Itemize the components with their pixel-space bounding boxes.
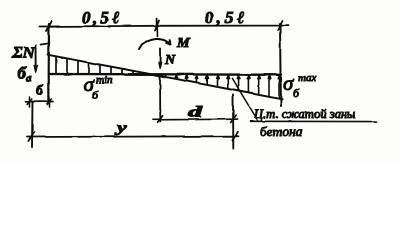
tick right end of d dimension <box>231 116 236 123</box>
svg-text:0,5ℓ: 0,5ℓ <box>82 8 123 27</box>
svg-text:ба: ба <box>18 65 32 84</box>
dimension line y (y=136.5) <box>27 135 238 138</box>
load arrow under sum N (head down) <box>34 45 37 73</box>
svg-text:max: max <box>298 72 316 84</box>
tick right end of b dimension <box>47 97 52 107</box>
svg-text:б: б <box>92 88 99 102</box>
tick on left extension line <box>41 43 50 44</box>
force arrow N (vertical, head down) <box>159 48 162 68</box>
svg-text:0,5ℓ: 0,5ℓ <box>205 8 248 27</box>
leader underline <box>250 120 376 122</box>
tick left end of top dimension <box>47 22 52 32</box>
tick right end of top dimension <box>278 21 283 31</box>
tick right end of y dimension <box>232 132 238 141</box>
centroid extension line <box>232 95 234 149</box>
svg-text:N: N <box>164 53 176 68</box>
left lower extension line (edge for y dimension) <box>31 102 34 148</box>
svg-text:у: у <box>115 119 128 136</box>
svg-text:M: M <box>176 36 190 51</box>
tick left end of d dimension <box>158 116 163 123</box>
left extension line (edge of section) <box>48 24 50 102</box>
stress arrows right triangle (heads up at datum) <box>166 75 280 99</box>
svg-text:ΣN: ΣN <box>11 43 36 62</box>
middle extension line upper stub <box>156 26 158 36</box>
leader line to centroid <box>232 79 257 121</box>
middle extension line lower (to d dimension) <box>159 76 161 122</box>
moment arc arrowhead <box>167 40 171 45</box>
svg-text:бетона: бетона <box>260 124 303 139</box>
label sigma_b^min <box>84 72 114 102</box>
svg-text:d: d <box>188 103 203 121</box>
dimension line b (y=100) <box>26 101 53 103</box>
svg-text:min: min <box>96 74 113 86</box>
tick left end of b dimension <box>27 97 32 107</box>
svg-text:б: б <box>36 84 44 99</box>
dimension line 0,5l+0,5l (top, y=26) <box>40 25 288 28</box>
stress slant line <box>48 55 282 100</box>
svg-text:б: б <box>293 86 300 100</box>
moment arc M <box>139 38 171 49</box>
label sigma_b^max <box>283 71 316 100</box>
hatch ticks left triangle <box>56 57 133 73</box>
svg-text:Ц.т. сжатой заны: Ц.т. сжатой заны <box>253 107 356 121</box>
dimension line d (y=119.5) <box>153 118 237 121</box>
datum line (zero stress axis) <box>49 73 281 76</box>
tick left end of y dimension <box>28 132 34 141</box>
right extension line <box>280 24 281 106</box>
tick middle of top dimension <box>155 19 159 31</box>
